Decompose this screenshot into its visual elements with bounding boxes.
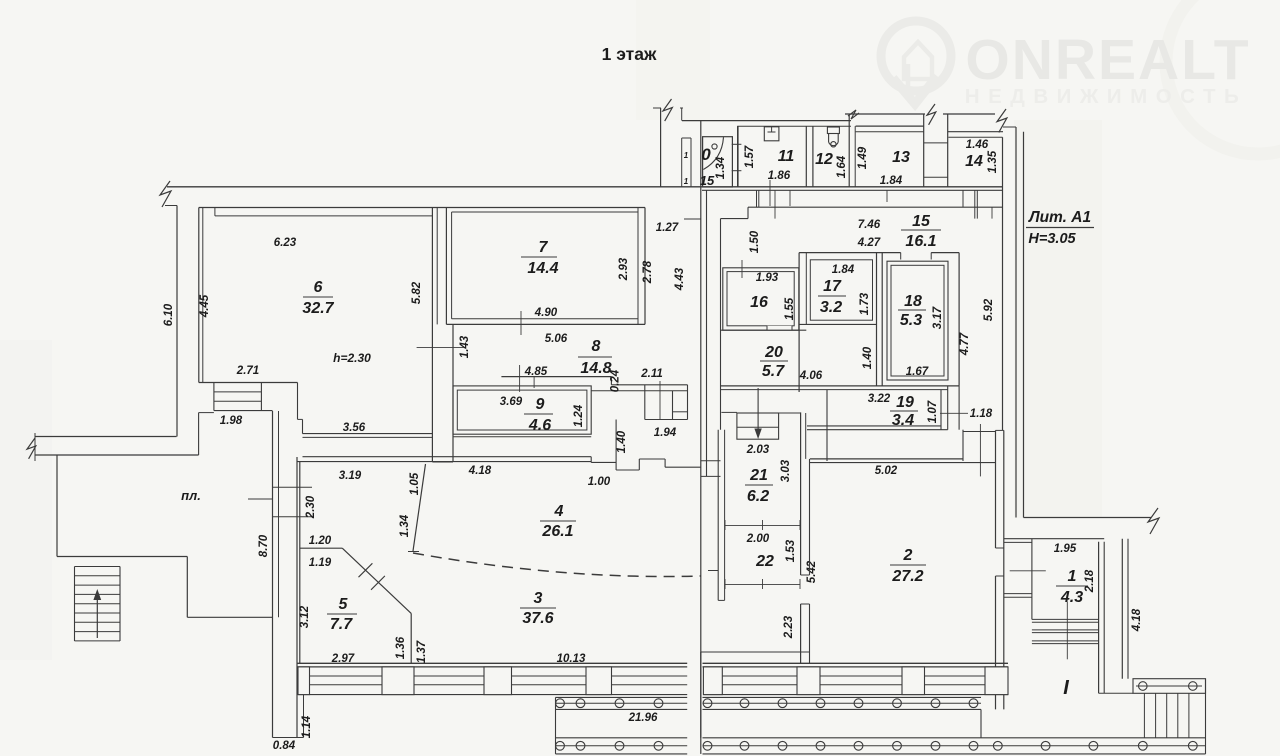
dim line 1.43 [417,346,465,348]
hall south wall [701,651,810,653]
svg-text:Н=3.05: Н=3.05 [1028,231,1076,247]
break symbol porch wall [27,438,36,459]
svg-text:1.14: 1.14 [301,715,313,738]
wall: left exterior x=177 [176,206,178,437]
svg-text:4.06: 4.06 [799,370,823,382]
svg-text:5: 5 [339,596,349,613]
underline room 6 [303,296,333,298]
dim line 1.95 [1010,570,1046,572]
svg-text:1.64: 1.64 [836,155,848,178]
section divider line with break [660,108,662,187]
svg-text:15: 15 [912,213,931,230]
east wing wall y=517.5 [1024,517,1152,519]
break symbol on east wing wall [1148,508,1159,534]
svg-text:6.10: 6.10 [163,303,175,326]
svg-text:2.18: 2.18 [1084,569,1096,593]
underline room 8 [578,356,612,358]
dim line [248,498,273,500]
porch area pl. [56,455,58,557]
SE stair steps [1143,693,1145,738]
1.98 landing [198,413,200,455]
svg-text:3.4: 3.4 [892,412,914,429]
svg-text:1.20: 1.20 [309,535,332,547]
svg-text:1.57: 1.57 [744,145,756,168]
svg-text:4.18: 4.18 [1131,608,1143,632]
svg-text:1.98: 1.98 [220,415,243,427]
svg-text:4.18: 4.18 [468,465,492,477]
room 20 [721,329,807,331]
svg-text:7: 7 [539,239,549,256]
svg-text:8: 8 [592,338,601,355]
break symbol left end of north wall [160,181,171,207]
room 17 [810,260,872,320]
room 7 outer bottom [446,323,645,325]
railing rod SE landing [1136,685,1202,687]
dim line below 22 [725,583,800,585]
dim ext 2.11 [659,381,661,420]
wall jog right of room6 [297,383,299,420]
wall: room 13 top outer [856,125,924,127]
railing rod lower row [556,745,688,747]
dim tick 4.90 [520,311,522,335]
svg-text:3.12: 3.12 [299,605,311,628]
svg-text:2.78: 2.78 [642,260,654,284]
svg-text:1.18: 1.18 [970,408,993,420]
svg-text:1.67: 1.67 [906,366,929,378]
svg-text:2.11: 2.11 [640,368,663,380]
railing rod upper row [556,702,688,704]
svg-text:2.03: 2.03 [746,444,770,456]
svg-text:2.71: 2.71 [236,365,259,377]
svg-text:4.90: 4.90 [534,307,558,319]
svg-text:6.23: 6.23 [274,237,297,249]
svg-text:6: 6 [314,279,323,296]
svg-text:1.94: 1.94 [654,427,677,439]
underline room 2 [890,564,926,566]
svg-text:1.50: 1.50 [749,230,761,253]
tick top of left exterior wall [165,205,177,207]
door leaf room 4 [413,464,426,551]
svg-text:3.19: 3.19 [339,470,362,482]
opening tick on diagonal [359,563,373,577]
dim tick 4.85 [519,365,521,392]
svg-text:1.43: 1.43 [459,335,471,358]
room 11 washbasin [764,127,779,141]
step between colonnade rows [980,709,982,737]
room 7 inner top [452,211,638,213]
svg-text:1.19: 1.19 [309,557,332,569]
west walls of right section [700,121,702,738]
dim tick 1.34 top [732,143,742,145]
colonnade upper row [556,696,688,698]
break symbol between 13 and 14 [927,104,936,125]
svg-text:1: 1 [1068,568,1077,585]
room 6 walls [198,208,200,383]
svg-text:1: 1 [684,177,689,186]
wall: long north wall y=187 [167,186,1003,188]
svg-text:5.92: 5.92 [983,298,995,321]
room 7 inner bottom [452,318,638,320]
svg-text:0: 0 [701,145,711,164]
room 7 [445,208,447,325]
balcony parapet band [310,675,383,677]
break symbol on section divider [663,99,672,121]
svg-text:5.7: 5.7 [762,363,785,380]
svg-text:1.93: 1.93 [756,272,779,284]
svg-text:0.84: 0.84 [273,740,296,752]
wall: room 13 top inner [856,131,924,133]
wall stub below room 22 [708,570,718,572]
svg-text:1.35: 1.35 [987,150,999,173]
entrance vestibule with arrow [721,411,737,413]
east wall pocket above room 2 [962,430,964,461]
svg-text:6.2: 6.2 [747,488,769,505]
wall: inner top rooms 11-12 [737,125,851,127]
small stairs below room 6 [213,383,215,411]
svg-text:1.46: 1.46 [966,139,989,151]
shaft wall between 12 and 13 [848,114,850,187]
east double wall with door gap [995,430,997,548]
svg-text:1.86: 1.86 [768,170,791,182]
svg-text:1.27: 1.27 [656,222,679,234]
stub wall [701,460,721,462]
corridor walls y=433-461 [303,433,433,435]
svg-text:4.27: 4.27 [857,237,881,249]
svg-text:Лит. А1: Лит. А1 [1028,209,1091,226]
svg-text:3: 3 [534,590,543,607]
wall: corner down to band top [681,108,683,121]
svg-text:3.22: 3.22 [868,393,891,405]
svg-text:5.42: 5.42 [806,560,818,583]
svg-text:4.43: 4.43 [674,267,686,291]
svg-text:5.82: 5.82 [411,281,423,304]
svg-text:h=2.30: h=2.30 [333,351,371,365]
dim line 1.18 [940,412,968,414]
bottom wall of building [297,662,687,664]
room 1 [1004,538,1104,540]
dim ticks below north wall [756,190,758,207]
underline room 19 [890,410,918,412]
room 10 [703,137,733,187]
room 18 [881,253,883,386]
svg-text:1.84: 1.84 [832,264,855,276]
svg-text:1.40: 1.40 [616,430,628,453]
pocket walls right of room 9 [610,377,612,385]
svg-text:НЕДВИЖИМОСТЬ: НЕДВИЖИМОСТЬ [965,85,1247,108]
svg-text:14.4: 14.4 [527,260,558,277]
colonnade lower row [556,737,688,739]
room 9 inner box [457,390,587,430]
svg-text:17: 17 [823,278,842,295]
svg-text:16.1: 16.1 [905,233,936,250]
dim line 1.27 [684,218,701,220]
svg-text:37.6: 37.6 [522,610,553,627]
svg-text:1.55: 1.55 [784,297,796,320]
wall: room 14 top outer [948,131,1003,133]
svg-text:1.40: 1.40 [862,346,874,369]
right exterior double wall [1015,127,1017,518]
room 1 threshold lines [1032,618,1099,620]
logo house outline [904,42,932,79]
dim ext room 1 [1066,602,1068,660]
svg-text:3.56: 3.56 [343,422,366,434]
svg-text:5.06: 5.06 [545,333,568,345]
dim ext 1.93 [741,260,743,278]
svg-text:1.53: 1.53 [785,539,797,562]
svg-text:1.34: 1.34 [399,514,411,537]
svg-text:2.30: 2.30 [305,495,317,519]
underline room 9 [524,413,553,415]
rooms 17/18 top wall with door [799,252,901,254]
svg-text:22: 22 [755,553,774,570]
svg-text:1.73: 1.73 [859,292,871,315]
svg-text:3.03: 3.03 [780,459,792,482]
wall: top of rooms 10-12 [682,120,851,122]
wall: room 6 bottom [199,382,298,384]
underline room 5 [327,613,357,615]
room 2 walls [800,412,802,575]
diagonal wall room 5 [342,548,411,613]
narrow wall sliver at section cut [681,138,683,187]
tick at section line top [653,107,661,109]
svg-text:1.00: 1.00 [588,476,611,488]
svg-text:14.8: 14.8 [580,360,611,377]
svg-text:3.17: 3.17 [932,306,944,329]
dim tick 2.30 top [273,486,313,488]
wall: room 6 inner top [215,215,433,217]
svg-text:11: 11 [778,148,795,165]
pocket right wall [687,385,689,420]
underline room 18 [898,309,926,311]
svg-text:2: 2 [903,547,913,564]
room 9 outer top [501,376,611,378]
underline room 20 [760,360,788,362]
svg-text:7.46: 7.46 [858,219,881,231]
svg-text:4: 4 [554,503,564,520]
shaft between rooms 13 and 14 [923,114,925,187]
svg-text:1.49: 1.49 [857,146,869,169]
wall between 16 and 17 [798,253,800,392]
wall: upper ledge y=114 right part [943,113,995,115]
svg-text:2.00: 2.00 [746,533,770,545]
svg-text:1: 1 [684,151,689,160]
dashed arc between rooms 3 and 4 [413,553,701,577]
svg-text:9: 9 [536,396,545,413]
room 11 walls [737,126,739,187]
svg-text:18: 18 [904,293,922,310]
room 20 bottom inner [721,389,949,391]
svg-text:21.96: 21.96 [628,712,658,724]
svg-text:1.37: 1.37 [416,640,428,663]
svg-text:14: 14 [965,153,983,170]
svg-text:4.45: 4.45 [199,294,211,318]
underline room 15 [901,229,941,231]
svg-text:пл.: пл. [181,488,201,503]
svg-text:1.84: 1.84 [880,175,903,187]
room 9 outer box [453,386,591,434]
svg-text:1.36: 1.36 [395,636,407,659]
svg-text:0.24: 0.24 [610,369,622,392]
room 19 [826,390,828,461]
svg-text:I: I [1063,677,1069,699]
svg-text:4.3: 4.3 [1060,589,1083,606]
svg-text:4.6: 4.6 [528,417,551,434]
svg-text:3.2: 3.2 [820,299,842,316]
underline room 17 [818,295,846,297]
dim tick 1.34 bottom [732,170,742,172]
svg-text:12: 12 [815,151,833,168]
wall: room6 right / thick wall edge [431,208,433,463]
dim ext 5.02 [979,424,981,476]
svg-text:4.77: 4.77 [959,332,971,356]
east wall of room14 down [1002,137,1004,430]
room 5 walls [299,462,301,664]
svg-text:1.05: 1.05 [409,472,421,495]
svg-text:1.24: 1.24 [573,404,585,427]
west wall room 21-22 outer [717,430,719,601]
room 20 bottom outer [721,385,960,387]
ONREALT watermark logo: house pin icon [893,76,937,104]
exterior stairs with up arrow [74,567,76,642]
room 15 top walls [748,206,1003,208]
dim tick 2.30 bottom [273,516,313,518]
svg-text:1.07: 1.07 [927,400,939,423]
svg-text:26.1: 26.1 [541,523,573,540]
wall: top of rooms 6-7 [199,207,645,209]
svg-text:1.95: 1.95 [1054,543,1077,555]
wall: room 14 top inner [948,136,1002,138]
wall: inner north wall right section [702,189,1002,191]
wall: upper ledge y=114 left part [845,113,925,115]
underline Lit A1 [1026,227,1094,229]
dim line between 21 and 22 [725,524,800,526]
svg-text:2.23: 2.23 [783,615,795,639]
svg-text:5.3: 5.3 [900,312,922,329]
door sill room 2 exit [1004,593,1032,595]
underline room 21 [745,484,773,486]
left cap of colonnade [555,697,557,754]
underline room 7 [521,256,557,258]
svg-text:16: 16 [750,294,768,311]
room 12 toilet [827,127,839,134]
svg-text:ONREALT: ONREALT [965,28,1250,92]
section divider through balcony [700,652,702,754]
svg-text:21: 21 [749,467,768,484]
room 16 [723,268,799,330]
svg-text:8.70: 8.70 [258,534,270,557]
room 4 top-right stepped wall [590,457,592,463]
svg-text:32.7: 32.7 [302,300,334,317]
west strip wall [272,411,274,738]
underline room 4 [540,520,576,522]
underline room 1 [1056,585,1088,587]
svg-text:7.7: 7.7 [330,616,353,633]
break symbol right end of top ledge [997,109,1007,132]
east outer wall of wing [1121,539,1123,679]
svg-text:3.69: 3.69 [500,396,523,408]
svg-text:27.2: 27.2 [891,568,923,585]
SE stair landing [1133,679,1206,694]
svg-text:13: 13 [892,149,910,166]
porch north double wall [35,436,177,438]
svg-text:20: 20 [764,344,783,361]
thick wall block between rooms 6 and corridor [452,324,454,462]
svg-text:15: 15 [700,173,715,188]
underline room 3 [520,607,556,609]
svg-text:5.02: 5.02 [875,465,898,477]
wall between rooms 11 and 12 [805,126,807,187]
svg-text:19: 19 [896,394,914,411]
svg-text:2.93: 2.93 [618,257,630,281]
svg-text:1 этаж: 1 этаж [602,44,657,64]
svg-text:1.34: 1.34 [715,156,727,179]
